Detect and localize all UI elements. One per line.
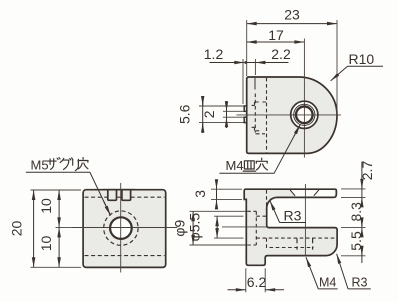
dim 2 arrow top [226,102,228,112]
dim 10 junction extension [56,226,73,228]
side view countersink diagonal left [290,190,295,196]
front view hidden line top [85,196,165,198]
top view hidden line long [266,78,268,153]
top view hole outer circle [291,101,318,128]
label M4 countersink kanji ana [256,158,267,170]
label M5 counterbore kana za [48,158,60,170]
label M4 countersink underline [219,125,300,174]
dim phi5.5 line [216,216,218,238]
dim 2 extension bottom [223,116,244,118]
svg-text:M5: M5 [31,158,49,173]
top view hidden staircase upper [252,102,266,105]
side view hidden step [267,238,314,247]
svg-text:R3: R3 [352,275,368,289]
label M5 counterbore underline and leader [26,172,111,215]
front view hole circle [110,217,132,239]
svg-text:17: 17 [268,27,284,43]
side view top arm white zone [291,190,335,196]
dim 10 upper line [58,190,60,227]
svg-text:1.2: 1.2 [204,46,224,62]
dim phi9 line [192,211,194,245]
dim phi9 extension bottom [190,244,247,246]
dim 1.2 tail and arrow [210,62,245,64]
dim right extension 3 [341,226,366,228]
svg-text:M4: M4 [319,275,336,289]
side view hidden hole bottom [256,237,335,239]
label M5 counterbore arrow [104,201,111,216]
label R3 upper underline [280,222,306,224]
top view vertical centerline [303,39,305,158]
label M5 counterbore kana gu [60,158,72,170]
svg-text:10: 10 [38,236,54,252]
dim 2.2 extension right [254,59,256,75]
dim 23 right extension [336,20,338,114]
dim 23 line [247,23,337,25]
dim 5.5 arrow up [361,227,363,234]
side view horizontal centerline [222,226,268,228]
dim 5.6 arrow top [202,97,204,107]
dim 5.6 extension bottom [199,122,244,124]
label M4 countersink kanji sara [243,161,255,171]
label M5 counterbore kana ri [73,159,79,170]
dim 10 lower line [58,227,60,267]
side view vertical centerline [304,184,306,256]
dim 1.2 junction dot [244,61,247,64]
svg-text:5.5: 5.5 [348,231,364,251]
dim 5.5 arrow down [361,249,363,256]
dim 1.2 extension left [242,59,244,104]
dim 6.2 extension right [264,268,266,292]
label M4 countersink arrow [294,125,300,137]
dim 2.2 line mid [247,62,256,64]
svg-text:2: 2 [201,110,217,118]
label R3 lower leader [337,254,348,289]
svg-text:R10: R10 [349,51,375,67]
label R10 underline [348,65,384,67]
front view notch left [108,189,117,200]
svg-text:10: 10 [38,198,54,214]
dim right stack line upper [361,162,363,199]
svg-text:M4: M4 [226,158,244,173]
side view hidden slot edge [266,190,268,211]
side view hidden tap right [312,238,314,249]
dim 5.6 extension top [199,105,244,107]
top view body [247,77,337,153]
dim 3 extension bottom [211,198,242,200]
label R3 upper leader [270,201,280,223]
side view hidden counterbore bottom [247,244,256,246]
front view body [83,190,166,268]
dim 2 extension top [223,110,244,112]
svg-text:2.2: 2.2 [271,46,291,62]
dim 2 arrow bottom [226,117,228,127]
svg-text:23: 23 [284,6,300,22]
svg-text:5.6: 5.6 [177,104,193,124]
dim 5.6 arrow bottom [202,123,204,132]
side view countersink diagonal right [314,190,319,196]
front view hole white [110,217,132,239]
front view top edge over notches [103,189,135,191]
top view hole inner circle [296,107,313,124]
dim 2.7 arrow down [361,181,363,189]
dim 20 line [33,190,35,267]
svg-text:3: 3 [192,190,208,198]
dim 2 line [226,101,228,128]
dim right stack line lower [361,251,363,264]
side view hidden counterbore top [247,210,256,212]
top view slot edge solid stub [254,78,256,90]
svg-text:φ9: φ9 [172,220,188,237]
front view hidden line bottom [85,255,165,257]
dim 8.3 arrow down [361,220,363,227]
dim 3 arrow top [216,182,218,190]
dim 6.2 extension left [245,268,247,292]
top view hole middle circle [294,104,315,125]
front view notch right [122,189,131,200]
svg-text:20: 20 [9,221,25,237]
dim phi9 extension top [190,210,247,212]
top view hidden line counterbore [254,94,256,133]
dim 2.2 arrow and tail [255,62,288,64]
top view hidden staircase lower [252,127,265,134]
dim right extension 2 [341,196,366,198]
label R3 lower underline [348,288,371,290]
dim phi5.5 extension top [214,215,244,217]
svg-text:8.3: 8.3 [348,202,364,222]
dim 3 line [216,181,218,209]
dim right extension 4 [341,255,366,257]
label R10 leader [331,66,348,81]
label M4 underline [318,288,337,290]
dim phi5.5 extension bottom [214,237,244,239]
front view counterbore dashed circle [104,211,138,245]
top view tab upper [244,106,247,111]
top view tab lower [244,117,247,122]
front view vertical centerline [120,183,122,273]
dim 5.6 line [202,96,204,133]
dim 6.2 arrow left [228,289,246,291]
svg-text:R3: R3 [284,208,302,224]
dim 6.2 arrow right [265,289,284,291]
top view horizontal centerline [237,114,342,116]
dim 23/17 left extension [246,20,248,76]
svg-text:6.2: 6.2 [247,274,267,290]
side view hidden counterbore face [255,211,257,245]
dim 3 extension top [211,188,242,190]
svg-text:2.7: 2.7 [359,161,375,181]
dim 8.3 arrow up [361,197,363,204]
side view hidden hole top [256,215,266,217]
side view hidden tap left [296,238,298,249]
dim right extension 1 [341,188,366,190]
label M5 counterbore kanji ana [78,158,88,169]
dim 20/10 extension bottom [31,266,82,268]
dim 3 arrow bottom [216,199,218,208]
top view hole white [291,101,318,128]
dim 20/10 extension top [31,189,82,191]
dim 17 line [247,41,305,43]
svg-text:φ5.5: φ5.5 [187,213,203,242]
label M4 leader [306,257,318,289]
side view body [244,189,337,265]
front view horizontal centerline [72,227,177,229]
dim right stack line mid [361,220,363,227]
